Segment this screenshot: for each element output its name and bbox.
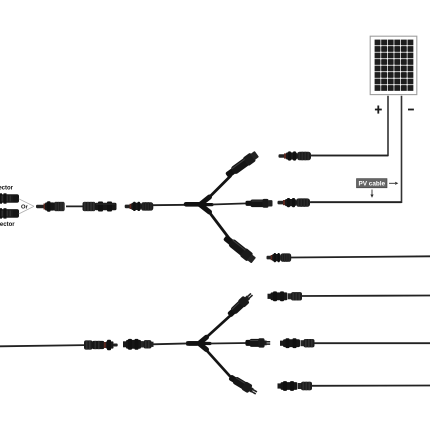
svg-text:Female connector: Female connector [0,222,15,228]
svg-text:PV cable: PV cable [358,181,385,188]
svg-text:Male connector: Male connector [0,185,14,191]
